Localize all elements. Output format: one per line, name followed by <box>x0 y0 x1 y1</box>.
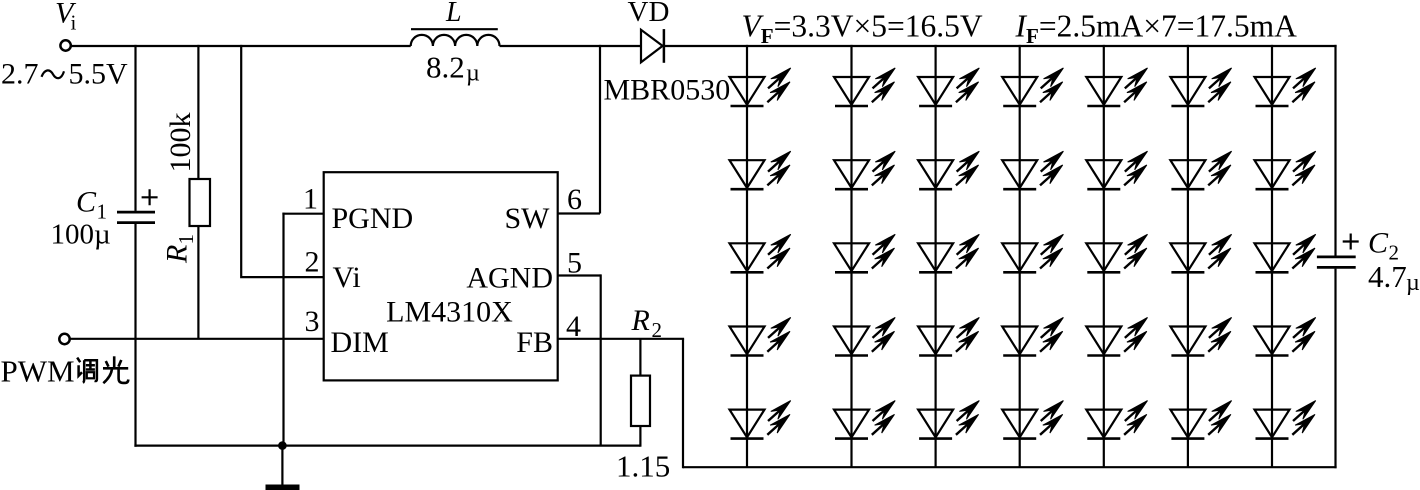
LED column 4 row 2 <box>1002 147 1067 189</box>
LED column 5 row 1 <box>1086 64 1151 106</box>
svg-text:C: C <box>1368 227 1389 260</box>
svg-text:µ: µ <box>1406 270 1420 296</box>
svg-text:4: 4 <box>566 310 581 343</box>
wire: LED column 6 <box>1187 45 1189 467</box>
resistor R1 body <box>190 179 211 226</box>
LED column 4 row 5 <box>1002 397 1067 439</box>
wire: ground rail <box>134 445 640 447</box>
wire: SW pin 6 stub <box>558 212 600 214</box>
LED column 7 row 4 <box>1255 314 1320 356</box>
LED column 1 row 2 <box>730 147 795 189</box>
junction dot at ground node <box>278 441 287 450</box>
svg-text:1: 1 <box>174 234 198 245</box>
svg-text:VD: VD <box>628 0 670 28</box>
wire: top rail from diode to top-right corner <box>664 45 1337 47</box>
svg-text:5: 5 <box>567 247 582 280</box>
capacitor C1 bottom plate <box>117 221 155 224</box>
wire: right rail below C2 <box>1334 269 1336 469</box>
LED column 7 row 5 <box>1255 397 1320 439</box>
svg-text:2.7: 2.7 <box>1 58 39 91</box>
LED column 6 row 3 <box>1170 230 1235 272</box>
svg-text:DIM: DIM <box>331 326 389 359</box>
capacitor C2 bottom plate <box>1317 266 1356 269</box>
svg-text:µ: µ <box>466 61 480 87</box>
C1 polarity plus sign <box>142 189 158 205</box>
wire: R1 lower lead to DIM line <box>197 226 199 339</box>
LED column 3 row 1 <box>918 64 983 106</box>
LED column 4 row 1 <box>1002 64 1067 106</box>
diode VD cathode bar <box>663 29 666 63</box>
svg-text:FB: FB <box>516 326 553 359</box>
LED column 6 row 2 <box>1170 147 1235 189</box>
wire: PGND drop to ground junction <box>282 213 284 446</box>
LED column 5 row 5 <box>1086 397 1151 439</box>
svg-text:5.5V: 5.5V <box>69 58 129 91</box>
LED column 2 row 5 <box>834 397 899 439</box>
diode VD triangle <box>641 30 663 63</box>
svg-text:L: L <box>445 0 462 28</box>
LED column 2 row 2 <box>834 147 899 189</box>
wire: Vi riser from top rail to pin 2 <box>241 45 324 277</box>
LED column 5 row 2 <box>1086 147 1151 189</box>
wire: C1 branch from top rail <box>134 45 136 211</box>
ground bar <box>266 484 300 490</box>
LED column 7 row 2 <box>1255 147 1320 189</box>
svg-text:IF=2.5mA×7=17.5mA: IF=2.5mA×7=17.5mA <box>1015 9 1298 49</box>
svg-text:3: 3 <box>305 305 320 338</box>
capacitor C1 top plate <box>117 211 155 214</box>
wire: SW riser to top rail <box>599 45 601 214</box>
LED column 1 row 4 <box>730 314 795 356</box>
svg-text:8.2: 8.2 <box>426 50 465 85</box>
PWM input terminal <box>59 334 69 344</box>
input terminal Vi <box>60 40 70 50</box>
wire: right rail above C2 <box>1334 45 1336 256</box>
svg-text:SW: SW <box>505 202 551 235</box>
svg-text:C: C <box>76 186 97 219</box>
svg-text:100k: 100k <box>164 113 197 173</box>
LED column 1 row 3 <box>730 230 795 272</box>
LED column 1 row 5 <box>730 397 795 439</box>
LED column 6 row 4 <box>1170 314 1235 356</box>
wire: top rail from Vi terminal to inductor <box>71 45 411 47</box>
svg-text:6: 6 <box>567 183 582 216</box>
wire: PGND pin 1 stub <box>282 213 323 215</box>
capacitor C2 top plate <box>1317 255 1356 258</box>
svg-text:AGND: AGND <box>466 261 553 294</box>
wire: R1 branch from top rail <box>197 45 199 179</box>
LED column 6 row 5 <box>1170 397 1235 439</box>
wire: LED column 5 <box>1103 45 1105 467</box>
LED column 5 row 4 <box>1086 314 1151 356</box>
hanzi guang (of PWM dimming label) <box>103 356 128 383</box>
LED column 4 row 4 <box>1002 314 1067 356</box>
svg-text:2: 2 <box>652 318 663 342</box>
wire: LED bottom rail <box>683 466 1337 468</box>
LED column 4 row 3 <box>1002 230 1067 272</box>
inductor L <box>411 35 500 46</box>
svg-text:R: R <box>161 245 194 264</box>
wire: FB feedback drop to LED bottom rail <box>682 339 684 469</box>
LED column 5 row 3 <box>1086 230 1151 272</box>
svg-text:PWM: PWM <box>1 354 75 389</box>
wire: R2 upper lead from FB line <box>639 339 641 376</box>
resistor R2 body <box>631 376 650 426</box>
LED column 2 row 4 <box>834 314 899 356</box>
ground stem <box>281 446 283 486</box>
LED column 3 row 4 <box>918 314 983 356</box>
svg-text:1.15: 1.15 <box>616 449 670 484</box>
svg-text:MBR0530: MBR0530 <box>604 74 731 107</box>
svg-text:VF=3.3V×5=16.5V: VF=3.3V×5=16.5V <box>742 9 983 49</box>
resistor R1 label (rotated) <box>161 234 199 264</box>
LED column 6 row 1 <box>1170 64 1235 106</box>
wire: top rail from inductor to diode VD <box>500 45 642 47</box>
wire: LED column 4 <box>1019 45 1021 467</box>
wire: C1 lower lead to ground rail <box>134 224 136 447</box>
svg-text:Vi: Vi <box>333 261 361 294</box>
LED column 3 row 5 <box>918 397 983 439</box>
tilde of 2.7~5.5V <box>42 70 65 78</box>
svg-text:PGND: PGND <box>332 202 414 235</box>
wire: PWM terminal to DIM pin 3 <box>70 338 324 340</box>
wire: R2 lower lead to ground rail <box>639 426 641 447</box>
wire: LED column 3 <box>934 45 936 467</box>
LED column 2 row 1 <box>834 64 899 106</box>
LED column 2 row 3 <box>834 230 899 272</box>
svg-text:i: i <box>71 11 77 35</box>
LED column 7 row 3 <box>1255 230 1320 272</box>
wire: FB pin 4 to feedback node <box>558 338 684 340</box>
svg-text:2: 2 <box>305 246 320 279</box>
svg-text:R: R <box>631 304 650 337</box>
wire: AGND pin 5 stub <box>558 274 601 276</box>
LED column 7 row 1 <box>1255 64 1320 106</box>
C2 polarity plus sign <box>1343 234 1359 250</box>
LED column 1 row 1 <box>730 64 795 106</box>
IC U1 LM4310X body <box>324 172 558 380</box>
LED column 3 row 2 <box>918 147 983 189</box>
hanzi tiao (of PWM dimming label) <box>77 358 97 383</box>
svg-text:4.7: 4.7 <box>1368 259 1407 294</box>
wire: LED column 7 <box>1271 45 1273 467</box>
wire: LED column 2 <box>850 45 852 467</box>
inductor core overline <box>411 28 498 30</box>
svg-text:LM4310X: LM4310X <box>386 296 513 329</box>
svg-text:100µ: 100µ <box>51 219 111 251</box>
LED column 3 row 3 <box>918 230 983 272</box>
wire: AGND drop to ground rail <box>600 274 602 445</box>
svg-text:1: 1 <box>303 183 318 216</box>
wire: LED column 1 <box>746 45 748 467</box>
